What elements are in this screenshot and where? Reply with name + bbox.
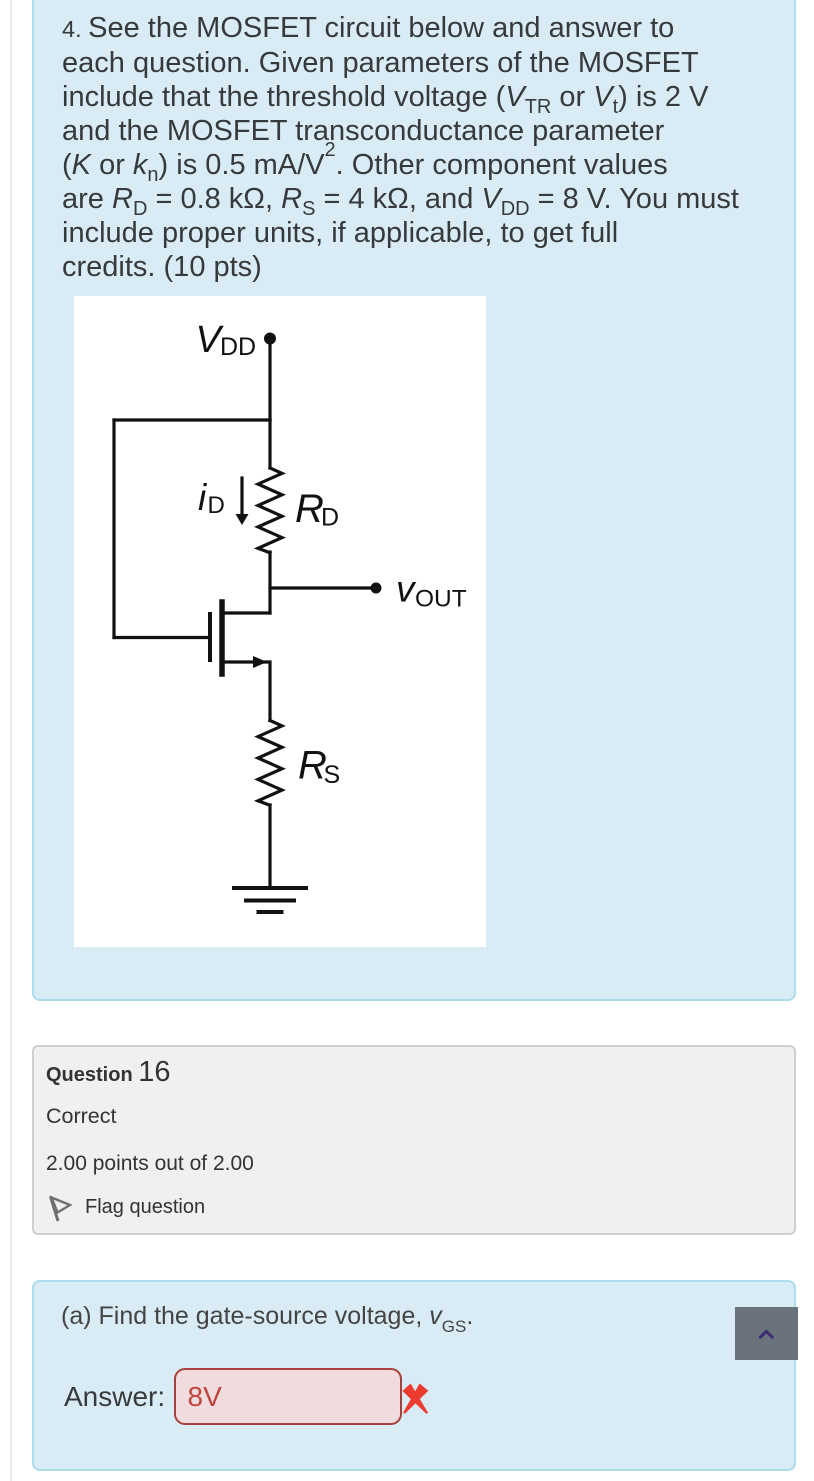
answer input field [174, 1368, 402, 1425]
transistor Q1 gate bar [208, 614, 212, 660]
svg-text:DD: DD [220, 333, 256, 361]
svg-text:D: D [208, 492, 225, 519]
Question number [46, 1058, 171, 1087]
question formulation box (top, cut off) [32, 0, 796, 1001]
state [46, 1106, 116, 1128]
answer value text [188, 1383, 222, 1411]
wire left vertical (gate feedback) [112, 420, 115, 638]
svg-text:S: S [324, 761, 341, 789]
svg-text:i: i [198, 477, 208, 518]
transistor Q1 channel bar [219, 602, 225, 674]
resistor RS zigzag [258, 721, 282, 806]
subquestion text [61, 1304, 473, 1329]
grade [46, 1153, 254, 1174]
incorrect cross icon [402, 1383, 429, 1414]
wire below RS [268, 805, 271, 888]
svg-text:R: R [295, 487, 324, 531]
svg-text:v: v [396, 569, 417, 610]
wire drain [222, 611, 270, 614]
wire VOUT horizontal [270, 586, 376, 589]
flag icon [48, 1195, 74, 1223]
question info box [32, 1045, 796, 1235]
wire top horizontal [114, 418, 270, 421]
ground [234, 886, 306, 890]
question text [62, 11, 762, 284]
wire VDD vertical [268, 338, 271, 420]
wire below RD [268, 552, 271, 613]
collapse button [735, 1307, 798, 1360]
svg-text:D: D [321, 504, 339, 532]
node VOUT dot [371, 583, 382, 594]
left page rule [10, 0, 12, 1481]
node VDD dot [264, 333, 276, 345]
circuit image (white) [74, 296, 486, 947]
wire gate horizontal [114, 636, 208, 639]
source arrowhead [253, 656, 267, 668]
resistor RD zigzag [258, 468, 282, 553]
current arrow iD [240, 478, 243, 515]
svg-text:OUT: OUT [415, 586, 467, 613]
wire above RD [268, 420, 271, 468]
wire source with arrow [222, 662, 270, 721]
answer box (blue) [32, 1280, 796, 1471]
flag text [85, 1197, 205, 1217]
answer label [64, 1383, 165, 1411]
